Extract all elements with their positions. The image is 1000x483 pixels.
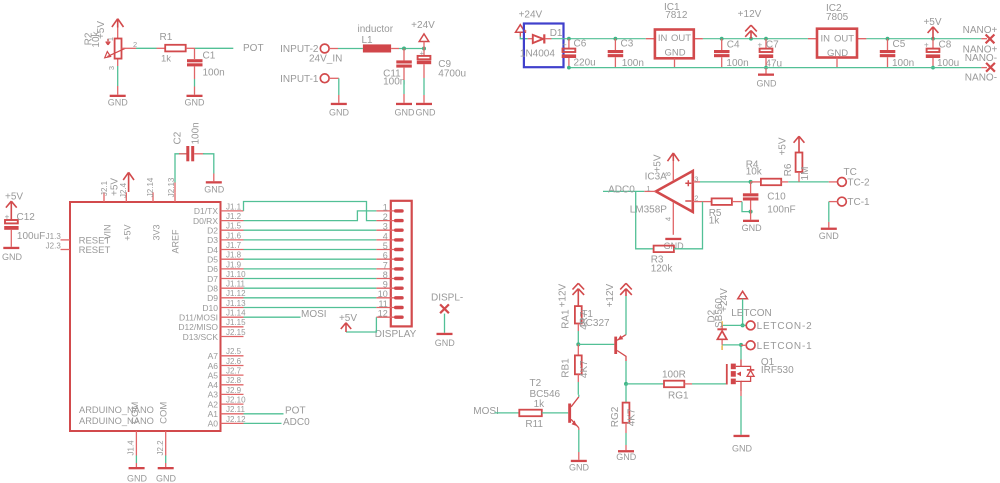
svg-text:R6: R6 — [783, 163, 794, 176]
pin 8 V+ with +5V — [653, 153, 680, 181]
wire TC-1 to gnd — [829, 202, 838, 228]
svg-text:7812: 7812 — [665, 10, 688, 21]
svg-text:A4: A4 — [208, 380, 219, 390]
node DISPL- — [431, 292, 463, 313]
capacitor C10 100nF — [743, 182, 796, 216]
svg-text:ARDUINO_NANO: ARDUINO_NANO — [79, 416, 154, 426]
junction C7 top — [764, 37, 768, 41]
ground (C10) — [742, 212, 763, 233]
svg-text:D12/MISO: D12/MISO — [178, 322, 218, 332]
wire T1 collector to node — [625, 361, 627, 384]
wire R5 to C10 bottom junction — [742, 202, 751, 212]
svg-text:+5V: +5V — [653, 154, 664, 172]
svg-text:SB560: SB560 — [714, 298, 725, 328]
svg-text:+12V: +12V — [605, 283, 616, 307]
svg-text:R1: R1 — [160, 32, 173, 43]
svg-text:6: 6 — [383, 251, 388, 261]
origin mark — [524, 30, 527, 33]
svg-text:BC546: BC546 — [530, 389, 561, 400]
svg-text:GND: GND — [416, 107, 437, 117]
svg-text:C7: C7 — [766, 40, 779, 51]
capacitor C7 47u polarized — [758, 39, 783, 70]
supply +12V (RA1) — [558, 283, 585, 307]
pin RESET J2.3 — [46, 242, 111, 256]
selection frame (blue) — [524, 24, 564, 68]
svg-text:+5V: +5V — [122, 225, 132, 241]
wire D2 anode row — [722, 344, 741, 346]
svg-text:J1.9: J1.9 — [226, 260, 242, 269]
svg-text:GND: GND — [127, 473, 148, 483]
junction +5V/C8 — [931, 37, 935, 41]
svg-text:4K7: 4K7 — [627, 408, 638, 426]
svg-text:D3: D3 — [207, 235, 218, 245]
junction RA1/RB1/base — [576, 342, 580, 346]
svg-text:D10: D10 — [202, 303, 218, 313]
pin D12/MISO J1.15 — [178, 318, 246, 332]
capacitor C5 100n — [880, 39, 914, 69]
resistor R6 1M with +5V — [778, 136, 812, 182]
svg-text:C1: C1 — [203, 50, 216, 61]
svg-text:8: 8 — [664, 172, 673, 176]
ground (C11) — [395, 103, 416, 118]
svg-text:D5: D5 — [207, 255, 218, 265]
ground (R2) — [108, 95, 129, 108]
transistor T2 BC546 (NPN) — [530, 378, 579, 428]
svg-text:1k: 1k — [709, 216, 721, 227]
ground (J2.2) — [156, 467, 177, 483]
svg-text:J1.10: J1.10 — [226, 270, 246, 279]
resistor R5 1k — [700, 198, 742, 226]
wire display pin 12 to +5V — [346, 317, 376, 332]
junction (drain/LETCON-1/D2) — [739, 343, 743, 347]
connector pin 8 — [376, 270, 403, 280]
svg-text:GND: GND — [204, 184, 225, 194]
svg-text:J2.10: J2.10 — [226, 396, 246, 405]
pin +5V J2.4 with supply arrow — [109, 172, 134, 240]
connector pin 9 — [376, 280, 403, 290]
wire pot bottom to gnd — [117, 66, 119, 95]
wire INPUT-1 to gnd — [329, 78, 339, 103]
pin D9 J1.12 — [207, 289, 246, 303]
wire J1.9 to display pin 7 — [244, 268, 377, 270]
svg-text:D1/TX: D1/TX — [194, 206, 218, 216]
svg-text:R11: R11 — [525, 419, 543, 430]
svg-text:J2.7: J2.7 — [226, 367, 242, 376]
svg-text:J1.4: J1.4 — [127, 440, 136, 456]
feedback wire R3 to pin 2 — [674, 202, 703, 249]
svg-text:120k: 120k — [651, 263, 674, 274]
svg-text:D1: D1 — [550, 28, 563, 39]
wire ADC0 net from J2.12 — [244, 422, 282, 424]
pin D5 J1.8 — [207, 251, 243, 265]
svg-text:D11/MOSI: D11/MOSI — [179, 313, 218, 323]
wire DISPL- to gnd — [444, 314, 446, 333]
pin D2 J1.5 — [207, 222, 243, 236]
wire J1.12 to display pin 10 — [244, 297, 377, 299]
svg-text:C12: C12 — [17, 212, 36, 223]
wire J1.7 to display pin 5 — [244, 249, 377, 251]
svg-text:100n: 100n — [383, 77, 405, 88]
svg-text:IRF530: IRF530 — [761, 365, 794, 376]
supply +12V (rail) — [738, 9, 762, 39]
svg-text:LETCON: LETCON — [731, 308, 772, 319]
svg-text:1M: 1M — [800, 167, 811, 181]
svg-text:8: 8 — [383, 270, 388, 280]
wire pot wiper to R1 — [122, 47, 166, 49]
supply +5V (display) — [339, 313, 357, 332]
svg-text:ADC0: ADC0 — [608, 184, 635, 195]
IC ARDUINO_NANO body — [70, 202, 221, 431]
capacitor C9 4700u polarized — [417, 49, 466, 103]
pin INPUT-1 — [280, 74, 329, 85]
pin A2 J2.10 — [208, 396, 247, 410]
svg-text:100nF: 100nF — [767, 205, 795, 216]
svg-text:BC327: BC327 — [579, 318, 610, 329]
op-amp IC3A LM358P — [630, 171, 693, 216]
svg-text:POT: POT — [285, 405, 306, 416]
svg-text:C10: C10 — [767, 192, 786, 203]
supply +5V (rail) — [923, 17, 941, 39]
svg-text:T2: T2 — [530, 378, 542, 389]
svg-text:+5V: +5V — [778, 137, 789, 155]
pin D3 J1.6 — [207, 231, 243, 245]
svg-text:MOSI: MOSI — [301, 309, 327, 320]
svg-text:1N4004: 1N4004 — [520, 48, 555, 59]
junction (R4/C10/pin3) — [749, 180, 753, 184]
svg-text:+24V: +24V — [519, 9, 543, 20]
svg-text:NANO-: NANO- — [965, 73, 997, 84]
wire J1.10 to display pin 8 — [244, 278, 377, 280]
svg-text:OUT: OUT — [834, 34, 854, 45]
connector pin 6 — [376, 251, 403, 261]
svg-text:A2: A2 — [208, 399, 219, 409]
diode D1 1N4004 — [520, 28, 563, 60]
junction C8 bottom — [931, 66, 935, 70]
supply +5V (R2 top) — [96, 19, 124, 39]
svg-text:GND: GND — [827, 48, 848, 59]
ground (Q1) — [732, 435, 753, 454]
svg-text:RG2: RG2 — [610, 406, 621, 427]
pin 3V3 J2.14 — [146, 177, 162, 240]
pin 4 V- to ground — [664, 202, 674, 235]
svg-text:J1.15: J1.15 — [226, 318, 246, 327]
regulator IC2 7805 — [808, 3, 867, 68]
svg-text:1k: 1k — [534, 399, 546, 410]
wire Q1 drain to LETCON-1 — [740, 345, 742, 360]
svg-text:RA1: RA1 — [560, 309, 571, 329]
capacitor C8 100u polarized — [924, 39, 959, 69]
junction (+24V/LETCON-2) — [741, 323, 745, 327]
svg-text:J2.1: J2.1 — [100, 180, 109, 196]
svg-text:D9: D9 — [207, 293, 218, 303]
svg-text:J2.3: J2.3 — [46, 242, 62, 251]
wire R4 to TC-2 — [788, 181, 829, 183]
svg-text:J1.7: J1.7 — [226, 241, 242, 250]
connector DISPLAY — [375, 201, 417, 340]
wire T2 collector up to RB1 — [578, 395, 580, 397]
wire J1.13 to display pin 11 — [244, 307, 377, 309]
svg-text:+12V: +12V — [738, 9, 762, 20]
junction C3 top — [614, 37, 618, 41]
regulator IC1 7812 — [646, 2, 703, 67]
feedback wire output to R3 — [636, 191, 654, 248]
svg-text:J2.8: J2.8 — [226, 376, 242, 385]
capacitor C12 100uF polarized — [4, 212, 45, 247]
svg-text:1: 1 — [106, 37, 115, 41]
svg-text:J1.2: J1.2 — [226, 212, 242, 221]
wire MOSI net from J1.14 — [244, 316, 301, 318]
pin A3 J2.9 — [208, 386, 244, 400]
svg-text:GND: GND — [108, 98, 129, 108]
svg-text:J2.12: J2.12 — [226, 415, 246, 424]
svg-text:A0: A0 — [208, 419, 219, 429]
pin D11/MOSI J1.14 — [179, 309, 246, 323]
svg-text:A3: A3 — [208, 390, 219, 400]
svg-text:D4: D4 — [207, 245, 218, 255]
svg-text:100n: 100n — [191, 122, 202, 144]
potentiometer R2 — [84, 28, 138, 71]
svg-text:DISPL-: DISPL- — [431, 292, 463, 303]
capacitor C11 100n — [383, 49, 412, 103]
connector pin 10 — [376, 289, 403, 299]
svg-text:J1.12: J1.12 — [226, 289, 246, 298]
wire L1 to +24V with junctions — [391, 47, 426, 51]
pin A7 J2.5 — [208, 347, 244, 361]
svg-text:J1.14: J1.14 — [226, 309, 246, 318]
svg-text:J2.15: J2.15 — [226, 328, 246, 337]
svg-text:D6: D6 — [207, 264, 218, 274]
wire J1.2 to display pin 1 (crossover) — [244, 211, 377, 221]
wire node to RG2 — [625, 384, 627, 403]
ground (C2) — [204, 181, 225, 194]
capacitor C6 220u polarized — [562, 38, 596, 68]
ground (IC3A) — [664, 238, 685, 251]
svg-text:1k: 1k — [161, 53, 171, 64]
wire base T1 — [578, 343, 614, 345]
svg-text:GND: GND — [742, 223, 763, 233]
svg-text:ADC0: ADC0 — [283, 417, 310, 428]
pin A4 J2.8 — [208, 376, 244, 390]
svg-text:C3: C3 — [621, 38, 634, 49]
wire T2 emitter to gnd — [578, 428, 580, 460]
svg-text:DISPLAY: DISPLAY — [375, 329, 417, 340]
transistor Q1 IRF530 (MOSFET) — [727, 357, 794, 391]
svg-text:5: 5 — [383, 241, 388, 251]
svg-text:INPUT-1: INPUT-1 — [280, 74, 319, 85]
svg-text:220u: 220u — [574, 58, 596, 69]
wire RG1 to Q1 gate — [692, 383, 727, 385]
junction node (collector/RG2/100R) — [624, 382, 628, 386]
svg-text:TC-1: TC-1 — [847, 197, 870, 208]
svg-text:J2.11: J2.11 — [226, 405, 246, 414]
wire LETCON-2 row — [722, 324, 746, 326]
svg-text:+5V: +5V — [923, 17, 941, 28]
ground rail wire — [569, 67, 982, 69]
svg-text:COM: COM — [158, 402, 169, 424]
svg-text:GND: GND — [732, 444, 753, 454]
diode D2 SB560 — [707, 298, 727, 350]
svg-text:J1.5: J1.5 — [226, 222, 242, 231]
svg-text:D2: D2 — [207, 226, 218, 236]
pin LETCON-2 — [731, 308, 812, 332]
svg-text:GND: GND — [435, 338, 456, 348]
connector pin 1 — [376, 202, 403, 212]
svg-text:+5V: +5V — [339, 313, 357, 324]
pin LETCON-1 — [741, 341, 812, 352]
junction C6 bottom — [567, 66, 571, 70]
connector pin 5 — [376, 241, 403, 251]
svg-text:GND: GND — [757, 79, 778, 89]
resistor R3 120k — [651, 246, 674, 275]
pin AREF J2.13 — [167, 177, 181, 253]
connector pin 2 — [376, 212, 403, 222]
supply +24V (LETCON) — [719, 288, 747, 326]
svg-text:GND: GND — [819, 231, 840, 241]
svg-text:12: 12 — [378, 309, 388, 319]
svg-text:RESET: RESET — [79, 245, 111, 256]
connector pin 12 — [376, 309, 403, 319]
svg-text:LETCON-2: LETCON-2 — [757, 321, 813, 332]
svg-text:A6: A6 — [208, 361, 219, 371]
svg-text:C2: C2 — [173, 131, 184, 144]
ground (C1) — [185, 95, 206, 108]
svg-text:3: 3 — [694, 175, 698, 184]
capacitor C2 100n (AREF bypass) — [173, 122, 214, 192]
pin 2 inverting input — [693, 193, 700, 202]
pin D8 J1.11 — [207, 280, 245, 294]
ground (J1.4) — [127, 467, 148, 483]
svg-text:7: 7 — [383, 260, 388, 270]
svg-text:L1: L1 — [362, 35, 374, 46]
svg-text:+24V: +24V — [411, 20, 435, 31]
resistor RA1 4R7 — [560, 306, 590, 344]
svg-text:J2.9: J2.9 — [226, 386, 242, 395]
ground (C12) — [2, 247, 23, 262]
pin TC-1 — [838, 197, 871, 208]
resistor R11 1k — [519, 399, 545, 430]
svg-text:COM: COM — [130, 402, 141, 424]
capacitor C3 100n — [608, 38, 644, 69]
svg-text:NANO-: NANO- — [965, 53, 997, 64]
svg-text:D7: D7 — [207, 274, 218, 284]
svg-text:4: 4 — [383, 231, 388, 241]
svg-text:D0/RX: D0/RX — [193, 216, 218, 226]
svg-text:RG1: RG1 — [668, 391, 689, 402]
svg-text:TC-2: TC-2 — [847, 177, 870, 188]
ground (C9) — [416, 103, 437, 118]
svg-text:inductor: inductor — [358, 24, 394, 35]
junction gnd stub — [764, 66, 768, 70]
pin VIN J2.1 — [100, 180, 113, 239]
svg-text:J1.6: J1.6 — [226, 231, 242, 240]
wire MOSI to R11 — [495, 412, 520, 414]
svg-text:7805: 7805 — [826, 12, 849, 23]
pin RESET J1.3 — [46, 232, 111, 246]
supply +5V (C12) — [5, 191, 23, 219]
pin 3 non-inverting input — [693, 175, 751, 184]
pin 1 output / node ADC0 — [603, 184, 656, 196]
svg-text:AREF: AREF — [170, 229, 180, 254]
svg-text:11: 11 — [378, 299, 387, 309]
svg-text:D13/SCK: D13/SCK — [183, 332, 219, 342]
junction (C10 bottom) — [749, 210, 753, 214]
svg-text:GND: GND — [664, 48, 685, 59]
svg-text:OUT: OUT — [671, 33, 691, 44]
svg-text:10: 10 — [378, 289, 388, 299]
svg-text:IN: IN — [658, 33, 668, 44]
resistor RB1 4K7 — [560, 344, 590, 394]
wire R1 to POT / C1 — [186, 48, 234, 59]
ground (T2) — [569, 460, 590, 473]
svg-text:LETCON-1: LETCON-1 — [757, 341, 813, 352]
svg-text:4K7: 4K7 — [579, 360, 590, 378]
svg-text:+5V: +5V — [5, 191, 23, 202]
svg-text:C6: C6 — [574, 38, 587, 49]
svg-text:J2.2: J2.2 — [156, 440, 165, 456]
pin INPUT-2 — [280, 44, 342, 65]
svg-text:J2.6: J2.6 — [226, 357, 242, 366]
pin J2.2 (bottom gnd) — [156, 431, 166, 467]
wire POT net from J2.11 — [244, 413, 284, 415]
svg-text:GND: GND — [185, 98, 206, 108]
pin D6 J1.9 — [207, 260, 243, 274]
svg-text:4: 4 — [664, 217, 673, 221]
ground (DISPL-) — [435, 333, 456, 348]
wire R11 to T2 base — [542, 412, 568, 414]
svg-text:GND: GND — [156, 473, 177, 483]
wire J1.6 to display pin 4 — [244, 239, 377, 241]
junction C5 top — [886, 37, 890, 41]
pin A1 J2.11 — [208, 405, 246, 419]
pin D0/RX J1.2 — [193, 212, 244, 226]
pin D7 J1.10 — [207, 270, 246, 284]
svg-text:2: 2 — [383, 212, 388, 222]
capacitor C1 100n — [187, 50, 225, 78]
junction C6 top — [567, 37, 571, 41]
connector pin 11 — [376, 299, 403, 309]
pin D1/TX J1.1 — [194, 202, 244, 216]
node NANO- — [965, 53, 997, 83]
pin A5 J2.7 — [208, 367, 244, 381]
resistor RG2 4K7 — [610, 403, 638, 451]
wire IC1 out to IC2 in — [703, 38, 808, 40]
wire Q1 source to gnd — [740, 391, 742, 435]
svg-text:J1.13: J1.13 — [226, 299, 246, 308]
connector pin 4 — [376, 231, 403, 241]
svg-text:GND: GND — [2, 252, 23, 262]
svg-text:A5: A5 — [208, 370, 219, 380]
pin D10 J1.13 — [202, 299, 246, 313]
pin J1.4 (bottom gnd) — [127, 431, 137, 467]
wire J1.8 to display pin 6 — [244, 258, 377, 260]
svg-text:GND: GND — [395, 107, 416, 117]
inductor L1 — [358, 24, 394, 52]
svg-text:+12V: +12V — [558, 283, 569, 307]
transistor T1 BC327 labels — [579, 309, 610, 329]
svg-text:ARDUINO_NANO: ARDUINO_NANO — [79, 405, 154, 415]
wire C1 to gnd — [194, 66, 196, 94]
svg-text:24V_IN: 24V_IN — [309, 54, 342, 65]
ground (rail) — [757, 68, 778, 89]
svg-text:J1.8: J1.8 — [226, 251, 242, 260]
supply +24V (input) — [411, 20, 435, 48]
ground (TC-1) — [819, 228, 840, 241]
svg-text:MOSI: MOSI — [473, 406, 499, 417]
wire J1.11 to display pin 9 — [244, 287, 377, 289]
svg-text:4700u: 4700u — [438, 69, 466, 80]
svg-text:10k: 10k — [91, 30, 102, 47]
wire INPUT-2 to L1 — [329, 48, 363, 50]
